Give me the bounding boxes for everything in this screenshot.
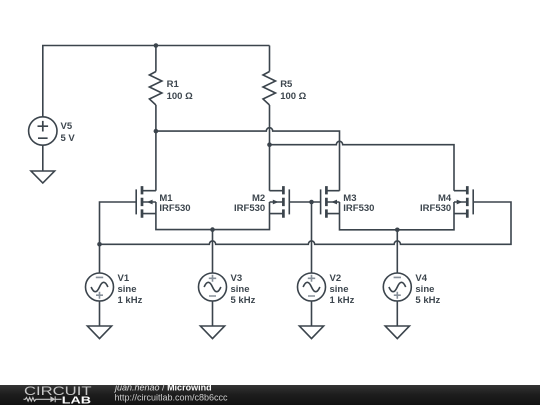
node: V1 / bottom rail junction xyxy=(97,242,102,247)
footer bar xyxy=(0,385,540,405)
wire: V1 top from bottom rail node xyxy=(99,244,101,273)
node: R1 bottom junction xyxy=(154,129,159,134)
wire: V4 vertical xyxy=(396,230,398,273)
svg-text:sine: sine xyxy=(118,284,137,295)
wire: R5 top stub xyxy=(269,46,271,72)
wire: V3 vertical xyxy=(212,230,214,273)
wire: R5 bottom node to M4 drain (hops over M3 drain wire) xyxy=(270,141,455,190)
wire: bottom rail from V1 node to M4 gate (hops over V3,V2,V4 wires) xyxy=(100,202,512,244)
resistor R1 xyxy=(149,72,162,106)
wire: R1 bottom node to M3 drain (hops over R5 wire) xyxy=(156,128,340,191)
svg-text:V3: V3 xyxy=(231,273,243,284)
transistor M3 xyxy=(321,186,340,218)
node: R5 bottom junction xyxy=(267,142,272,147)
wire: M1 gate to V1 node xyxy=(100,202,137,244)
wire: V3 bottom to ground xyxy=(212,301,214,326)
wire: V1 bottom to ground xyxy=(99,301,101,326)
logo resistor-diode glyph xyxy=(24,396,62,402)
svg-text:V1: V1 xyxy=(118,273,130,284)
wire: V5 bottom to ground xyxy=(42,145,44,171)
ground (V3) xyxy=(200,326,224,339)
transistor M4 xyxy=(454,186,473,218)
svg-text:sine: sine xyxy=(415,284,434,295)
svg-text:LAB: LAB xyxy=(62,394,92,405)
svg-text:5 V: 5 V xyxy=(61,133,76,144)
svg-text:M4: M4 xyxy=(438,193,452,204)
ground (V4) xyxy=(385,326,409,339)
svg-text:V5: V5 xyxy=(61,121,73,132)
wire: R5 bottom down to M2 drain xyxy=(269,105,271,191)
svg-text:http://circuitlab.com/c8b6ccc: http://circuitlab.com/c8b6ccc xyxy=(115,392,229,402)
voltage source V1 xyxy=(86,273,114,301)
svg-text:V4: V4 xyxy=(415,273,427,284)
wire: M2 gate to M3 gate xyxy=(289,201,320,203)
wire: R1 top stub xyxy=(155,46,157,72)
voltage source V5 xyxy=(29,117,57,145)
voltage source V4 xyxy=(383,273,411,301)
svg-text:5 kHz: 5 kHz xyxy=(231,295,256,306)
svg-text:V2: V2 xyxy=(330,273,342,284)
transistor M1 xyxy=(136,186,156,218)
svg-text:IRF530: IRF530 xyxy=(159,203,190,214)
transistor M2 xyxy=(270,186,290,218)
svg-text:sine: sine xyxy=(231,284,250,295)
voltage source V3 xyxy=(199,273,227,301)
resistor R5 xyxy=(263,72,276,106)
svg-text:M3: M3 xyxy=(343,193,356,204)
svg-text:R1: R1 xyxy=(167,79,180,90)
wire: V2 vertical xyxy=(311,202,313,273)
svg-text:IRF530: IRF530 xyxy=(234,203,265,214)
wire: V4 bottom to ground xyxy=(396,301,398,326)
svg-text:M1: M1 xyxy=(159,193,173,204)
node: M1/M2 source junction xyxy=(210,227,215,232)
svg-text:IRF530: IRF530 xyxy=(343,203,374,214)
svg-text:100 Ω: 100 Ω xyxy=(167,91,193,102)
svg-text:M2: M2 xyxy=(252,193,265,204)
wire: V2 bottom to ground xyxy=(311,301,313,326)
svg-text:R5: R5 xyxy=(280,79,293,90)
node: M2/M3 gate junction xyxy=(309,200,314,205)
wire: R1 bottom stub xyxy=(155,105,157,131)
ground (V1) xyxy=(87,326,111,339)
svg-text:sine: sine xyxy=(330,284,349,295)
wire: M1 drain up to R1 bottom node xyxy=(155,131,157,191)
wire: M3 source / M4 source joined, node to V4 xyxy=(340,202,455,230)
wire: M1 source / M2 source joined, node to V3 xyxy=(156,202,270,230)
voltage source V2 xyxy=(298,273,326,301)
svg-text:1 kHz: 1 kHz xyxy=(118,295,143,306)
node: top rail / R1 junction xyxy=(154,43,159,48)
wire: V5 top to top rail to R5 top xyxy=(43,46,270,118)
node: M3/M4 source junction xyxy=(395,228,400,233)
svg-text:100 Ω: 100 Ω xyxy=(280,91,306,102)
svg-text:juan.henao / Microwind: juan.henao / Microwind xyxy=(114,384,212,392)
svg-text:IRF530: IRF530 xyxy=(420,203,451,214)
svg-text:5 kHz: 5 kHz xyxy=(415,295,440,306)
ground (V2) xyxy=(299,326,323,339)
svg-text:1 kHz: 1 kHz xyxy=(330,295,355,306)
ground (V5) xyxy=(31,171,55,183)
